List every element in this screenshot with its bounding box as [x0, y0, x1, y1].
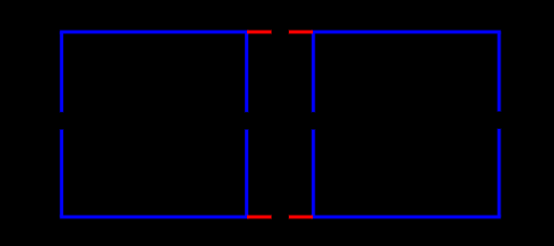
wire: middle-right branch upper lead — [311, 31, 316, 112]
wire: top rail of right loop (node C to node D) — [311, 29, 501, 34]
wire: middle-left branch lower lead — [244, 129, 249, 218]
wire: red lead, node B to top middle component gap — [247, 29, 272, 34]
wire: left outer branch upper lead — [59, 31, 64, 112]
wire: red lead, node E to bottom middle component gap — [247, 214, 272, 219]
wire: top rail of left loop (node A to node B) — [59, 29, 248, 34]
wire: red lead, top middle component gap to node C — [288, 29, 313, 34]
wire: right outer branch upper lead — [497, 31, 502, 112]
wire: right outer branch lower lead — [497, 128, 502, 217]
wire: bottom rail of left loop (node F to node E) — [59, 214, 248, 219]
wire: middle-left branch upper lead — [244, 31, 249, 112]
wire: left outer branch lower lead — [59, 129, 64, 218]
wire: red lead, bottom middle component gap to node G side — [288, 214, 313, 219]
wire: middle-right branch lower lead — [311, 129, 316, 218]
wire: bottom rail of right loop (node E to node G) — [311, 214, 501, 219]
